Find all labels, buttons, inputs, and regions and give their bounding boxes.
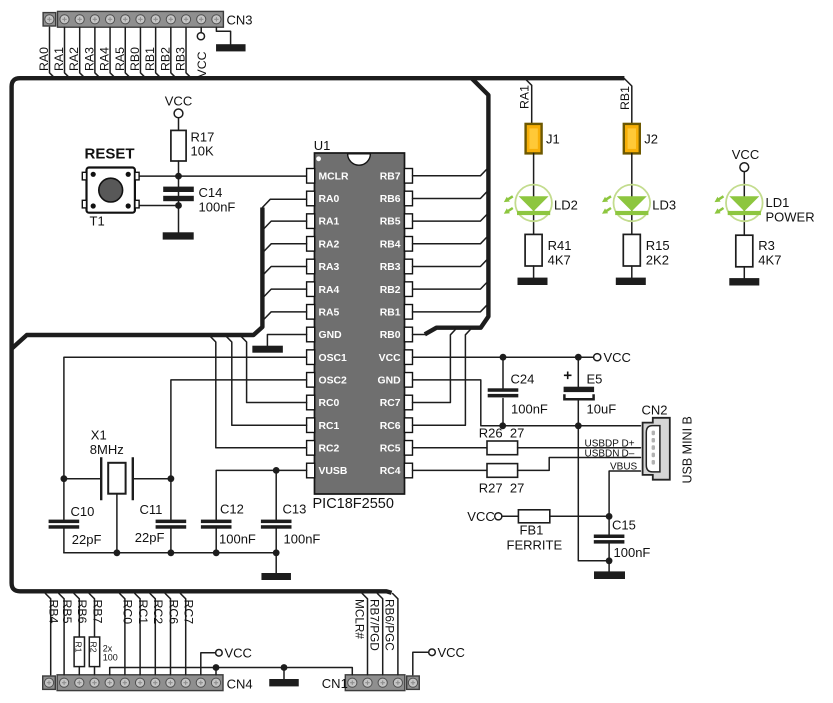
- svg-text:R15: R15: [646, 238, 670, 253]
- wire CN3 RA4 to bus: [110, 27, 115, 78]
- junction VUSB/C13: [273, 467, 280, 474]
- wire RB7 stub: [413, 169, 487, 175]
- wire RC7 via bus drop: [413, 330, 456, 403]
- svg-text:RA4: RA4: [98, 47, 112, 71]
- wire C12 lower lead: [215, 529, 217, 553]
- junction R17/C14/MCLR: [175, 173, 182, 180]
- connector CN3: [43, 11, 223, 27]
- svg-text:C12: C12: [220, 502, 244, 517]
- wire button top to junction: [139, 175, 178, 177]
- svg-text:RC0: RC0: [121, 600, 135, 625]
- svg-text:J1: J1: [546, 132, 560, 147]
- wire VCC to FB1: [502, 515, 519, 517]
- VCC terminal FB1: [495, 513, 502, 520]
- wire RC4 to R27: [413, 469, 488, 471]
- svg-text:22pF: 22pF: [72, 532, 102, 547]
- junction crystal left: [61, 475, 68, 482]
- wire RC7 from bus: [180, 594, 185, 675]
- wire GND drop to C15 bottom: [578, 426, 609, 561]
- wire RA4 stub: [264, 289, 306, 296]
- wire RB6 stub: [413, 192, 487, 198]
- svg-text:LD3: LD3: [652, 198, 676, 213]
- VCC terminal right: [594, 354, 601, 361]
- svg-text:RC5: RC5: [380, 443, 401, 454]
- svg-text:C11: C11: [140, 502, 163, 517]
- svg-text:FB1: FB1: [520, 523, 544, 538]
- wire C13 leads: [275, 470, 277, 552]
- svg-text:RA1: RA1: [52, 47, 66, 71]
- svg-text:VUSB: VUSB: [319, 466, 348, 477]
- wire R27 to USB D-: [518, 458, 641, 471]
- wire R3 to ground: [743, 267, 745, 278]
- svg-text:RESET: RESET: [85, 145, 135, 162]
- svg-text:GND: GND: [378, 375, 402, 386]
- wire RB5 stub: [413, 215, 487, 221]
- ground U1 left: [252, 346, 283, 353]
- wire VCC to R17: [178, 118, 180, 131]
- svg-text:RC2: RC2: [151, 600, 165, 625]
- svg-text:100nF: 100nF: [284, 532, 321, 547]
- svg-text:RA2: RA2: [67, 47, 81, 71]
- wire RC5 to R26: [413, 447, 488, 449]
- pushbutton T1 RESET: [82, 168, 139, 213]
- VCC terminal R17: [174, 109, 183, 118]
- wire R1 to CN4: [78, 667, 80, 675]
- svg-text:10uF: 10uF: [587, 402, 617, 417]
- wire RC6 via bus drop: [413, 330, 471, 426]
- svg-text:CN4: CN4: [227, 677, 253, 692]
- ground R41: [518, 278, 548, 285]
- svg-text:VCC: VCC: [467, 509, 494, 524]
- svg-text:RC6: RC6: [166, 600, 180, 625]
- svg-text:R2: R2: [89, 642, 99, 653]
- wire CN3 RA1 to bus: [65, 27, 70, 78]
- svg-text:VCC: VCC: [604, 350, 631, 365]
- svg-text:RC2: RC2: [319, 443, 340, 454]
- wire rail ground stub: [283, 668, 285, 680]
- wire C11 leads: [170, 479, 172, 553]
- VCC terminal LD1: [740, 163, 749, 172]
- resistor R26: [487, 441, 518, 455]
- wire RA1 stub: [264, 221, 306, 228]
- svg-text:RA2: RA2: [319, 239, 340, 250]
- svg-text:R3: R3: [758, 238, 775, 253]
- svg-text:C10: C10: [71, 504, 95, 519]
- svg-text:RA5: RA5: [319, 307, 340, 318]
- wire ground rail: [64, 552, 276, 554]
- svg-text:22pF: 22pF: [135, 530, 165, 545]
- wire crystal case to rail: [116, 494, 118, 553]
- svg-text:CN3: CN3: [227, 13, 253, 28]
- wire RB4 stub: [413, 237, 487, 243]
- svg-text:100nF: 100nF: [199, 200, 236, 215]
- resistor R41: [525, 234, 542, 266]
- svg-text:RB5: RB5: [380, 217, 401, 228]
- svg-text:RC4: RC4: [380, 466, 401, 477]
- wire VCC to LD1 to R3: [743, 172, 745, 236]
- wire RB4 from bus: [45, 594, 50, 675]
- svg-text:MCLR#: MCLR#: [352, 599, 366, 639]
- capacitor C15: [594, 535, 625, 544]
- connector CN4: [43, 675, 223, 691]
- connector CN1: [345, 675, 419, 691]
- ground C15: [594, 571, 625, 579]
- svg-text:RB0: RB0: [128, 47, 142, 71]
- jumper J1: [526, 124, 542, 153]
- svg-text:100nF: 100nF: [614, 545, 651, 560]
- junction rail ground: [281, 664, 288, 671]
- svg-text:POWER: POWER: [766, 210, 815, 225]
- svg-text:100nF: 100nF: [219, 532, 256, 547]
- wire rail to ground: [275, 553, 277, 573]
- svg-text:C24: C24: [511, 372, 535, 387]
- bus main loop (top / left / bottom): [12, 78, 625, 593]
- wire CN3 RB1 to bus: [156, 27, 161, 78]
- VCC terminal CN3: [197, 33, 204, 40]
- svg-text:VCC: VCC: [438, 645, 465, 660]
- wire CN3 RB2 to bus: [171, 27, 176, 78]
- svg-text:VCC: VCC: [165, 94, 192, 109]
- wire RC1 from bus: [135, 594, 140, 675]
- wire MCLR# from bus: [362, 594, 367, 675]
- svg-text:100nF: 100nF: [511, 402, 548, 417]
- svg-text:LD1: LD1: [766, 195, 790, 210]
- junction C13 bottom: [273, 549, 280, 556]
- svg-text:RC6: RC6: [380, 421, 401, 432]
- wire C24 leads: [502, 357, 504, 426]
- junction C15 bottom: [606, 557, 613, 564]
- svg-text:100: 100: [103, 653, 118, 663]
- svg-text:CN2: CN2: [642, 402, 668, 417]
- svg-text:RB4: RB4: [380, 239, 401, 250]
- svg-text:R26 27: R26 27: [479, 426, 525, 441]
- wire R41 to ground: [533, 266, 535, 278]
- junction C11 bottom: [168, 549, 175, 556]
- svg-text:4K7: 4K7: [758, 253, 781, 268]
- resistor R1: [74, 637, 84, 667]
- wire C15 leads: [608, 516, 610, 560]
- LED LD2: [504, 185, 552, 222]
- wire RB3 stub: [413, 260, 487, 266]
- junction rail pin12: [213, 664, 220, 671]
- svg-text:R27 27: R27 27: [479, 481, 525, 496]
- junction E5 bottom: [575, 422, 582, 429]
- wire rail to pin12: [215, 668, 217, 675]
- svg-text:RB7: RB7: [90, 600, 104, 624]
- svg-text:PIC18F2550: PIC18F2550: [313, 496, 394, 512]
- capacitor C11: [156, 520, 187, 529]
- svg-text:CN1: CN1: [322, 676, 348, 691]
- junction C12 bottom: [213, 549, 220, 556]
- wire VBUS: [609, 471, 640, 517]
- svg-text:OSC1: OSC1: [319, 353, 348, 364]
- USB connector CN2 (mini B): [643, 418, 670, 480]
- ground CN3: [216, 44, 246, 51]
- wire RA3 stub: [264, 266, 306, 273]
- VCC terminal CN4: [216, 650, 223, 657]
- wire RC1 to bus: [227, 337, 307, 426]
- wire RA2 stub: [264, 244, 306, 251]
- svg-text:R1: R1: [73, 642, 83, 653]
- wire CN3 RA0 to bus: [50, 27, 55, 78]
- svg-text:USB MINI B: USB MINI B: [681, 416, 695, 483]
- wire RB1 to J2: [624, 79, 631, 124]
- jumper J2: [624, 124, 640, 153]
- wire RC2 to bus: [211, 337, 307, 448]
- wire C15 to ground: [608, 561, 610, 572]
- svg-text:VCC: VCC: [225, 645, 252, 660]
- svg-text:R17: R17: [191, 130, 215, 145]
- wire R2 to CN4: [94, 667, 96, 675]
- svg-text:RB1: RB1: [380, 307, 401, 318]
- svg-text:RB5: RB5: [60, 600, 74, 624]
- junction button/C14: [175, 202, 182, 209]
- crystal X1: [101, 457, 133, 500]
- wire CN3 RB3 to bus: [186, 27, 191, 78]
- svg-text:RA3: RA3: [82, 47, 96, 71]
- svg-text:4K7: 4K7: [548, 253, 571, 268]
- ferrite FB1: [518, 510, 549, 523]
- wire RA1 to J1: [525, 79, 532, 124]
- svg-text:RB7/PGD: RB7/PGD: [368, 599, 382, 651]
- wire MCLR: [179, 175, 307, 177]
- wire VCC rail: [413, 356, 594, 358]
- ground rail: [261, 573, 291, 580]
- capacitor E5 (electrolytic): [564, 387, 595, 400]
- wire GND left pin: [267, 335, 306, 346]
- wire R17 to C14 to ground: [178, 161, 180, 232]
- wire CN1 VCC: [413, 652, 429, 675]
- wire E5 leads: [577, 357, 579, 426]
- junction FB1/VBUS/C15: [606, 513, 613, 520]
- wire OSC2: [171, 380, 307, 479]
- ground C14: [163, 232, 194, 239]
- wire RC6 from bus: [165, 594, 170, 675]
- wire CN3 RA2 to bus: [80, 27, 85, 78]
- junction C24 top: [500, 354, 507, 361]
- svg-text:FERRITE: FERRITE: [507, 538, 563, 553]
- svg-text:RB1: RB1: [618, 86, 632, 110]
- wire RB7/PGD from bus: [377, 594, 382, 675]
- svg-text:RB4: RB4: [47, 600, 61, 624]
- wire OSC1: [64, 357, 307, 519]
- bus branch to left pin column: [12, 208, 263, 349]
- svg-text:RA3: RA3: [319, 262, 340, 273]
- svg-text:C15: C15: [612, 518, 636, 533]
- plus sign E5: [564, 372, 572, 380]
- wire RB6/PGC from bus: [393, 594, 398, 675]
- wire VUSB: [216, 470, 306, 519]
- svg-text:RC0: RC0: [319, 398, 340, 409]
- svg-text:RC1: RC1: [136, 600, 150, 625]
- svg-text:RA4: RA4: [319, 285, 340, 296]
- LED LD1: [715, 185, 763, 222]
- wire RC0 to bus: [241, 337, 306, 403]
- svg-text:OSC2: OSC2: [319, 375, 348, 386]
- wire bottom rail: [110, 668, 353, 675]
- junction C24 bottom: [499, 422, 506, 429]
- svg-text:GND: GND: [319, 330, 343, 341]
- wire CN3 pin12 to ground: [216, 27, 230, 44]
- svg-text:J2: J2: [644, 132, 658, 147]
- svg-text:RB3: RB3: [380, 262, 401, 273]
- ground R15: [616, 278, 646, 285]
- wire RB5 from bus: [59, 594, 64, 675]
- svg-text:RC1: RC1: [319, 421, 340, 432]
- resistor R3: [736, 235, 753, 267]
- svg-text:R41: R41: [548, 238, 572, 253]
- svg-text:10K: 10K: [191, 144, 214, 159]
- wire RB1 stub: [413, 305, 487, 311]
- svg-text:RB3: RB3: [174, 47, 188, 71]
- wire CN3 VCC pin: [200, 27, 202, 32]
- wire VCC to CN4 pin11: [201, 653, 216, 675]
- wire CN3 RB0 to bus: [140, 27, 145, 78]
- svg-text:RA1: RA1: [319, 217, 340, 228]
- svg-text:RC7: RC7: [380, 398, 401, 409]
- svg-text:VCC: VCC: [732, 147, 759, 162]
- wire J1 to LED to R41: [533, 153, 535, 234]
- wire crystal row: [64, 478, 171, 480]
- svg-text:RB6: RB6: [75, 600, 89, 624]
- resistor R15: [623, 234, 640, 266]
- wire GND right to USB: [413, 380, 641, 426]
- capacitor C13: [261, 520, 292, 529]
- wire OSC1 lower: [63, 529, 65, 553]
- VCC terminal CN1: [429, 649, 436, 656]
- svg-text:USBDN: USBDN: [585, 448, 620, 459]
- svg-text:T1: T1: [90, 213, 105, 228]
- capacitor C12: [201, 520, 232, 529]
- svg-text:VCC: VCC: [379, 353, 401, 364]
- svg-text:RA0: RA0: [319, 194, 340, 205]
- wire RB0: [413, 334, 426, 336]
- ground R3: [729, 278, 759, 285]
- wire RA5 stub: [264, 312, 306, 319]
- capacitor C14: [163, 187, 194, 202]
- IC U1 PIC18F2550: [307, 153, 413, 494]
- junction case/rail: [114, 549, 121, 556]
- bus right vertical (port B): [425, 78, 489, 334]
- svg-text:RA1: RA1: [518, 85, 532, 109]
- capacitor C10: [49, 520, 80, 529]
- svg-text:RC7: RC7: [182, 600, 196, 625]
- wire R26 to USB D+: [518, 447, 641, 449]
- wire RC0 from bus: [120, 594, 125, 675]
- wire CN3 RA3 to bus: [95, 27, 100, 78]
- wire button bottom to junction: [139, 205, 178, 207]
- wire FB1 to VBUS node: [550, 515, 609, 517]
- ground bottom rail: [269, 679, 299, 686]
- svg-text:X1: X1: [91, 428, 107, 443]
- wire J2 to LED to R15: [631, 153, 633, 234]
- junction crystal right: [168, 475, 175, 482]
- LED LD3: [602, 185, 650, 222]
- resistor R27: [487, 464, 518, 478]
- svg-text:C13: C13: [283, 502, 307, 517]
- wire RB7 from bus: [89, 594, 94, 638]
- wire R15 to ground: [631, 266, 633, 278]
- wire RB2 stub: [413, 283, 487, 289]
- svg-text:RB2: RB2: [158, 47, 172, 71]
- wire RB6 from bus: [74, 594, 79, 638]
- wire CN3 RA5 to bus: [125, 27, 130, 78]
- svg-text:2K2: 2K2: [646, 253, 669, 268]
- svg-text:RB1: RB1: [143, 47, 157, 71]
- svg-text:RB7: RB7: [380, 171, 401, 182]
- junction E5 top: [575, 354, 582, 361]
- svg-text:RB6/PGC: RB6/PGC: [383, 599, 397, 651]
- wire RC2 from bus: [150, 594, 155, 675]
- svg-text:RB6: RB6: [380, 194, 401, 205]
- resistor R2: [89, 637, 99, 667]
- svg-text:8MHz: 8MHz: [90, 442, 124, 457]
- svg-text:LD2: LD2: [554, 198, 578, 213]
- svg-text:C14: C14: [199, 185, 223, 200]
- svg-text:RB2: RB2: [380, 285, 401, 296]
- svg-text:U1: U1: [314, 138, 331, 153]
- svg-text:RA5: RA5: [113, 47, 127, 71]
- svg-text:RA0: RA0: [37, 47, 51, 71]
- resistor R17: [171, 130, 186, 161]
- svg-text:E5: E5: [587, 372, 603, 387]
- svg-text:VCC: VCC: [195, 51, 209, 77]
- wire RA0 stub: [262, 199, 306, 207]
- capacitor C24: [488, 388, 519, 397]
- svg-text:D–: D–: [622, 448, 635, 459]
- svg-text:MCLR: MCLR: [319, 171, 350, 182]
- svg-text:RB0: RB0: [380, 330, 401, 341]
